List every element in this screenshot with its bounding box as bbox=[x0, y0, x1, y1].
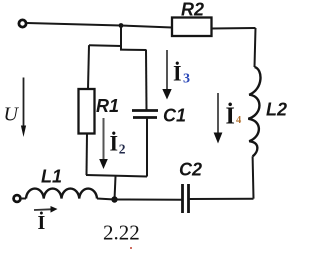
wire block left lower bbox=[86, 134, 89, 176]
wire top (terminal to junction) bbox=[27, 23, 121, 26]
terminal bottom-left bbox=[14, 195, 21, 202]
wire C2 to right corner bbox=[189, 198, 254, 200]
svg-text:L2: L2 bbox=[266, 100, 287, 120]
wire right vertical lower bbox=[252, 156, 255, 198]
svg-text:C2: C2 bbox=[179, 160, 202, 180]
resistor R1 bbox=[79, 89, 95, 134]
svg-text:İ: İ bbox=[173, 61, 182, 86]
wire junction to R2 bbox=[121, 26, 172, 28]
wire block bottom edge bbox=[86, 175, 147, 177]
wire R2 to right corner bbox=[212, 27, 256, 30]
wire block top edge bbox=[89, 45, 147, 50]
arrow U bbox=[23, 78, 25, 127]
svg-text:İ: İ bbox=[110, 131, 119, 156]
arrow I2 bbox=[103, 118, 105, 160]
svg-text:C1: C1 bbox=[163, 106, 186, 126]
wire block right upper bbox=[145, 50, 148, 110]
svg-text:R2: R2 bbox=[181, 0, 204, 20]
svg-text:R1: R1 bbox=[96, 96, 119, 116]
svg-text:4: 4 bbox=[236, 115, 242, 126]
svg-text:U: U bbox=[4, 104, 20, 126]
arrow I bottom bbox=[34, 208, 51, 211]
wire L1 to junction bbox=[97, 199, 115, 200]
wire junction down to block top bbox=[120, 26, 122, 51]
capacitor C1 bbox=[132, 111, 158, 118]
svg-text:İ: İ bbox=[226, 104, 235, 130]
wire stub block to bottom node bbox=[115, 177, 116, 200]
red speck bbox=[130, 247, 132, 249]
inductor L2 bbox=[248, 67, 260, 156]
svg-text:İ: İ bbox=[38, 210, 46, 234]
capacitor C2 bbox=[183, 184, 189, 213]
wire junction to C2 bbox=[115, 199, 183, 201]
wire block left upper bbox=[88, 45, 89, 89]
resistor R2 bbox=[172, 18, 212, 37]
wire block right lower bbox=[146, 118, 148, 177]
arrow I4 bbox=[217, 93, 219, 133]
svg-text:3: 3 bbox=[183, 72, 190, 87]
node bottom junction bbox=[111, 196, 117, 202]
wire right vertical upper bbox=[255, 28, 256, 67]
svg-text:L1: L1 bbox=[41, 167, 62, 187]
inductor L1 bbox=[26, 189, 97, 199]
node top junction bbox=[119, 23, 124, 28]
svg-text:2.22: 2.22 bbox=[103, 221, 140, 245]
wire terminal to L1 bbox=[21, 198, 27, 200]
terminal top-left bbox=[19, 20, 26, 27]
arrow I3 bbox=[166, 50, 168, 90]
svg-text:2: 2 bbox=[119, 142, 126, 157]
